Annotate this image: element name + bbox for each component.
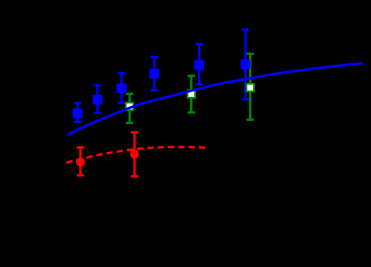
- error bar: blue point 1: [74, 103, 81, 122]
- marker: green open square 3: [246, 84, 254, 92]
- marker: blue filled square 1: [73, 109, 83, 119]
- marker: blue filled square 6: [241, 60, 251, 70]
- error bar: green point 1: [126, 94, 133, 123]
- marker: green open square 1: [126, 103, 134, 111]
- error bar: blue point 2: [94, 85, 101, 113]
- error bar: blue point 6: [242, 30, 249, 100]
- error bar: blue point 4: [151, 57, 158, 90]
- marker: blue filled square 4: [149, 69, 159, 79]
- error bar: blue point 5: [195, 44, 202, 84]
- curve: red dashed fit line: [66, 147, 205, 163]
- error bar: red point 2: [131, 132, 138, 176]
- marker: green open square 2: [188, 90, 196, 98]
- marker: red filled circle 1: [76, 158, 85, 167]
- curve: blue solid fit line: [67, 63, 363, 135]
- error bar: red point 1: [77, 148, 84, 176]
- error bar: green point 2: [188, 76, 195, 113]
- marker: blue filled square 2: [93, 95, 103, 105]
- error bar: blue point 3: [118, 73, 125, 103]
- marker: red filled circle 2: [130, 150, 139, 159]
- marker: blue filled square 5: [194, 60, 204, 70]
- marker: blue filled square 3: [117, 83, 127, 93]
- error bar: green point 3: [247, 54, 254, 120]
